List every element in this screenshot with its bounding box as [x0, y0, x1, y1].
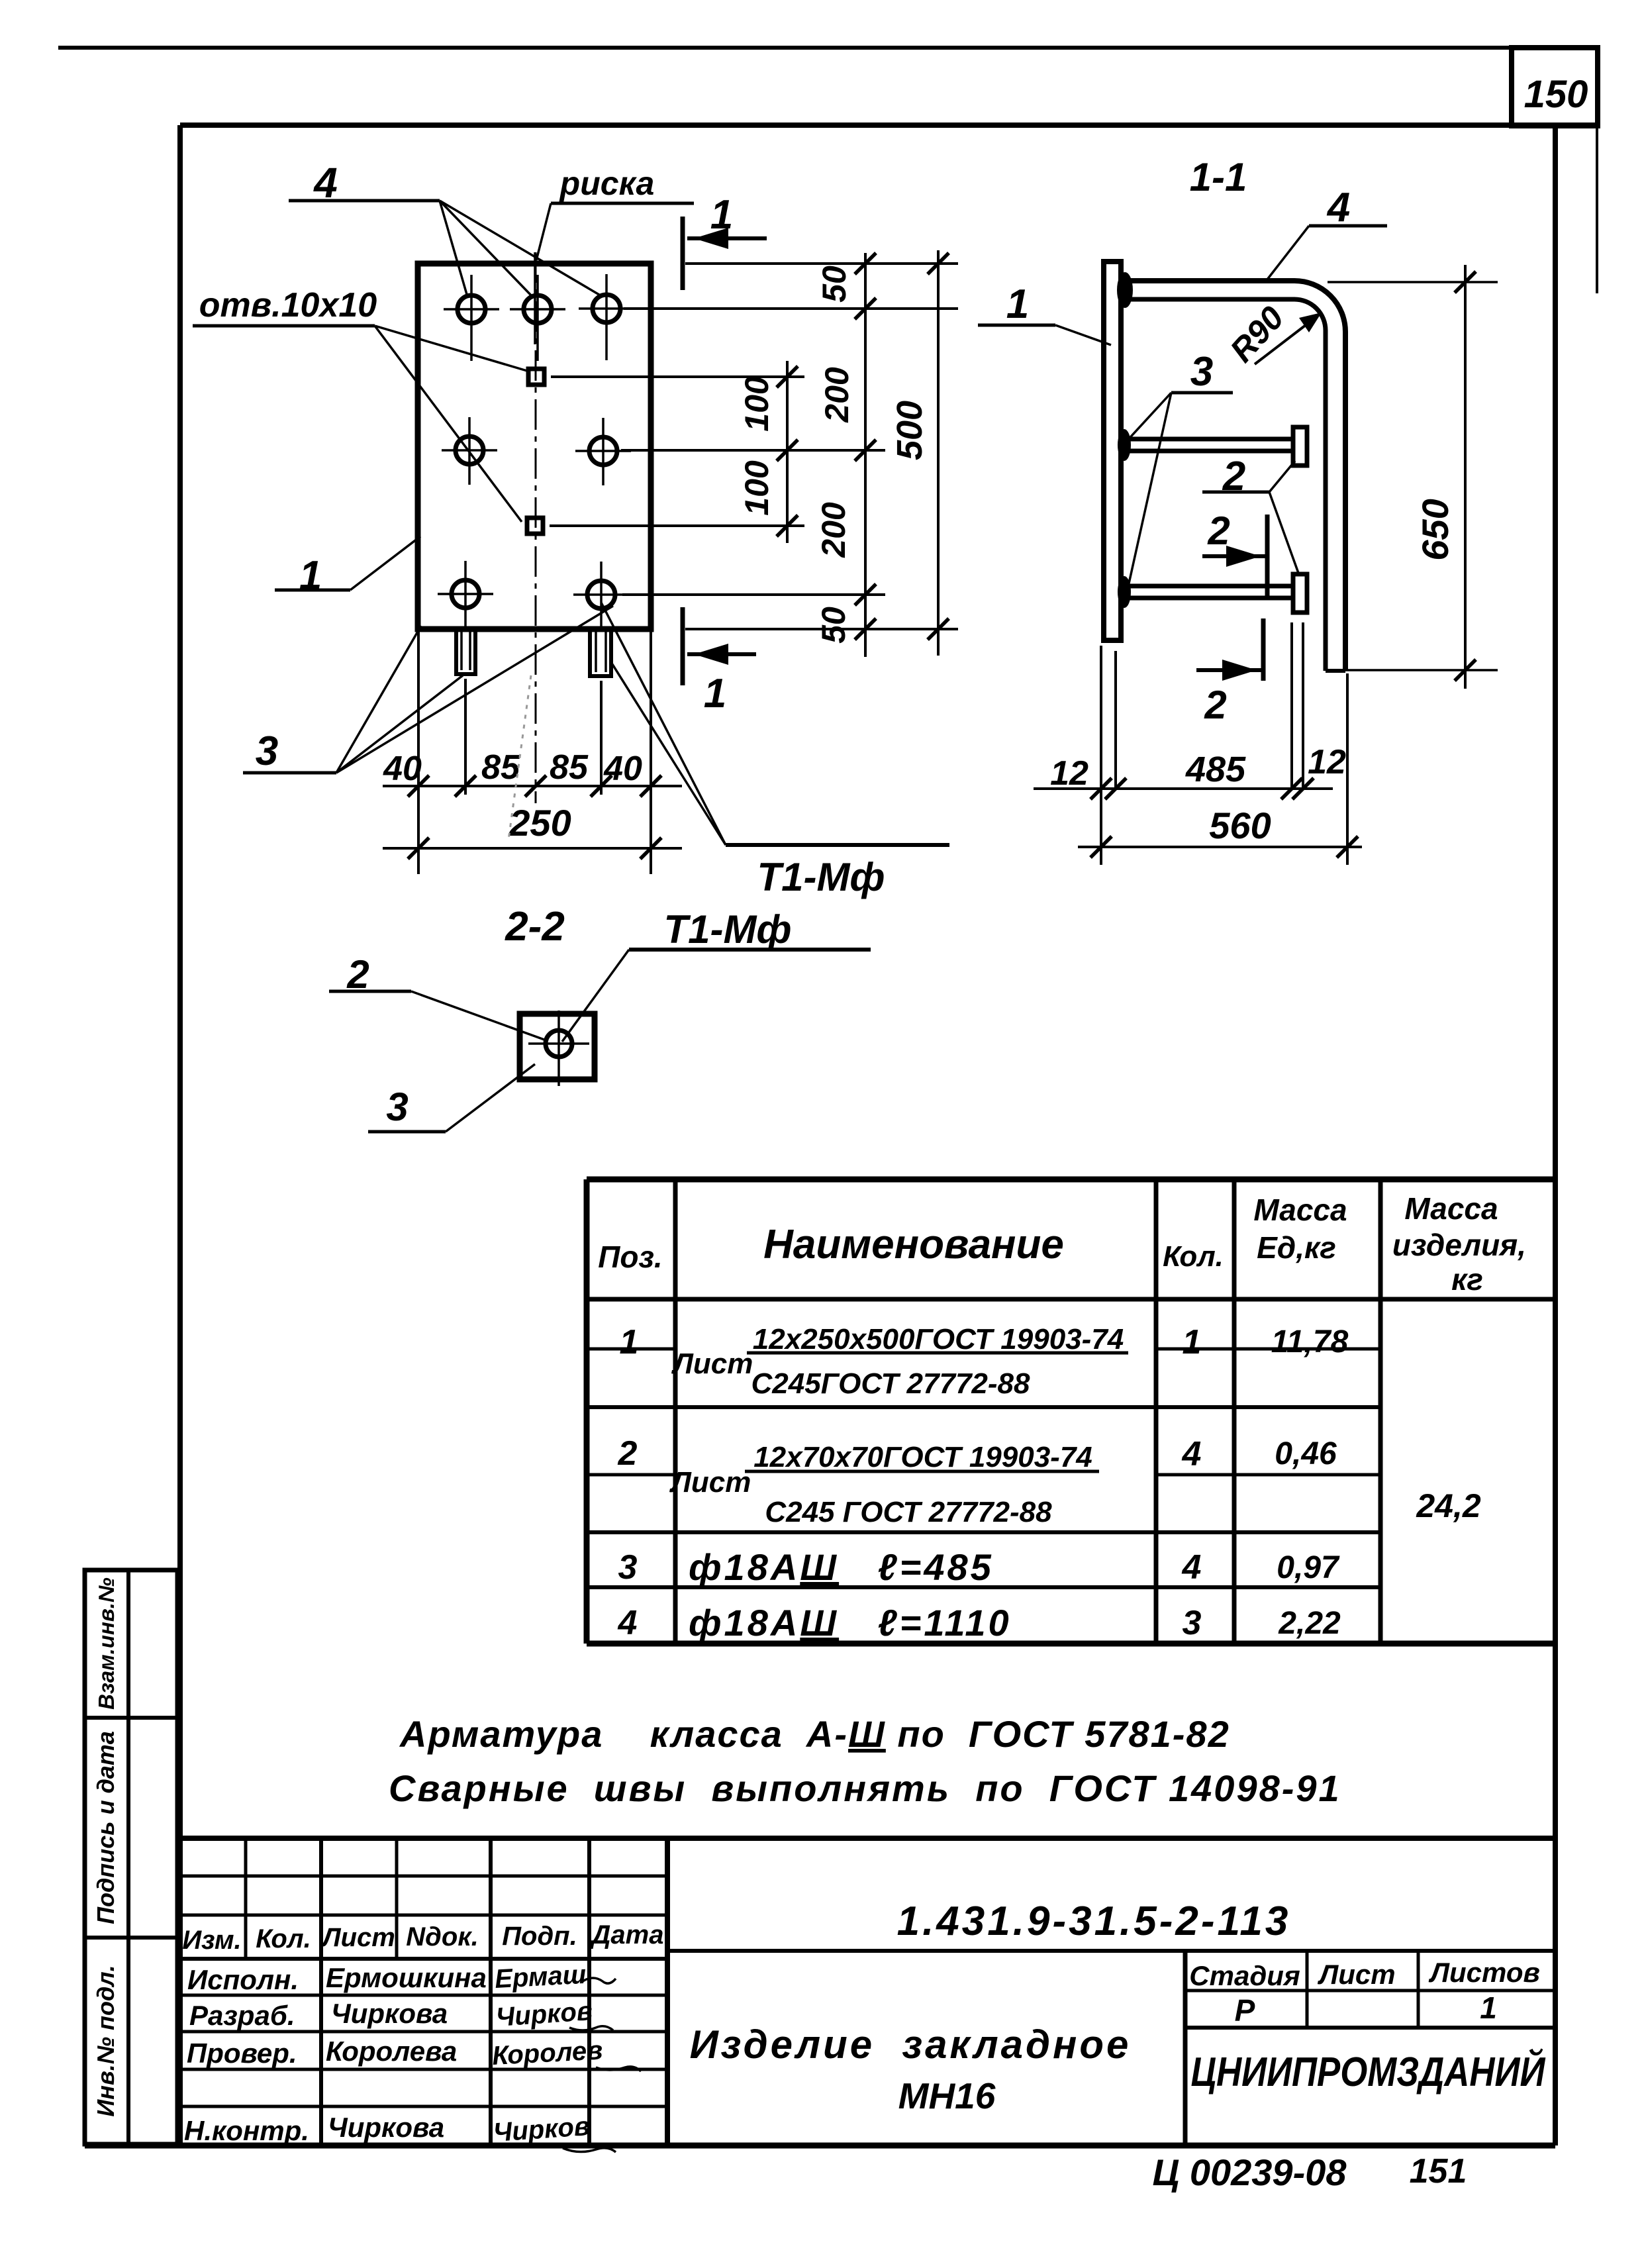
svg-text:Р: Р	[1235, 1993, 1255, 2028]
svg-text:Стадия: Стадия	[1189, 1960, 1300, 1991]
svg-text:Чиркова: Чиркова	[331, 1998, 448, 2029]
svg-text:12: 12	[1050, 754, 1088, 793]
svg-text:40: 40	[383, 750, 422, 788]
svg-text:150: 150	[1524, 73, 1588, 116]
svg-text:риска: риска	[559, 165, 655, 202]
svg-text:24,2: 24,2	[1416, 1487, 1481, 1524]
svg-text:3: 3	[386, 1085, 408, 1129]
svg-text:Лист: Лист	[320, 1923, 395, 1952]
svg-text:250: 250	[508, 802, 571, 844]
svg-text:Ермаш: Ермаш	[494, 1960, 587, 1994]
svg-text:Подпись и дата: Подпись и дата	[92, 1731, 119, 1924]
svg-text:Лист: Лист	[1317, 1959, 1395, 1990]
svg-text:МН16: МН16	[898, 2075, 996, 2116]
svg-text:Лист: Лист	[669, 1466, 751, 1499]
svg-text:485: 485	[1185, 750, 1246, 789]
svg-text:Сварные швы выполнять по Г: Сварные швы выполнять по ГОСТ 14098-91	[389, 1767, 1341, 1809]
svg-text:С245ГОСТ 27772-88: С245ГОСТ 27772-88	[751, 1367, 1031, 1400]
svg-text:4: 4	[1182, 1548, 1202, 1587]
svg-text:Арматура класса А-Ш по ГО: Арматура класса А-Ш по ГОСТ 5781-82	[399, 1713, 1230, 1755]
svg-text:200: 200	[818, 367, 855, 423]
svg-text:Ермошкина: Ермошкина	[326, 1962, 487, 1993]
svg-text:Разраб.: Разраб.	[189, 2000, 295, 2031]
svg-text:1-1: 1-1	[1190, 155, 1247, 199]
svg-text:85: 85	[550, 748, 589, 787]
svg-text:Исполн.: Исполн.	[187, 1964, 299, 1995]
svg-text:изделия,: изделия,	[1392, 1228, 1526, 1262]
svg-text:2-2: 2-2	[505, 904, 565, 950]
svg-text:1: 1	[299, 553, 322, 599]
svg-text:12х250х500ГОСТ 19903-74: 12х250х500ГОСТ 19903-74	[753, 1323, 1124, 1356]
svg-text:2,22: 2,22	[1278, 1606, 1341, 1641]
svg-text:100: 100	[738, 460, 775, 516]
svg-text:Изделие закладное: Изделие закладное	[690, 2022, 1132, 2067]
svg-text:Поз.: Поз.	[598, 1240, 662, 1274]
svg-text:1.431.9-31.5-2-113: 1.431.9-31.5-2-113	[897, 1898, 1291, 1944]
svg-text:Ц 00239-08: Ц 00239-08	[1152, 2151, 1347, 2193]
svg-text:4: 4	[1182, 1435, 1202, 1473]
svg-text:4: 4	[1326, 185, 1350, 230]
svg-text:Дата: Дата	[590, 1920, 664, 1949]
svg-text:Кол.: Кол.	[1163, 1240, 1224, 1273]
svg-text:1: 1	[1480, 1991, 1497, 2025]
svg-text:Масса: Масса	[1404, 1191, 1498, 1226]
svg-text:3: 3	[256, 728, 278, 774]
svg-text:Взам.инв.№: Взам.инв.№	[94, 1577, 119, 1710]
svg-text:Изм.: Изм.	[182, 1926, 241, 1955]
svg-text:4: 4	[618, 1604, 638, 1642]
svg-text:100: 100	[738, 376, 775, 432]
svg-text:3: 3	[618, 1548, 638, 1587]
svg-text:2: 2	[1204, 683, 1226, 727]
svg-text:500: 500	[890, 401, 930, 460]
svg-text:Подп.: Подп.	[502, 1922, 577, 1951]
svg-text:Наименование: Наименование	[763, 1222, 1064, 1267]
svg-text:Лист: Лист	[671, 1348, 753, 1380]
svg-text:1: 1	[1006, 281, 1029, 327]
svg-text:Масса: Масса	[1253, 1193, 1347, 1227]
svg-text:1: 1	[1183, 1323, 1202, 1361]
svg-text:1: 1	[704, 671, 726, 716]
svg-text:12х70х70ГОСТ 19903-74: 12х70х70ГОСТ 19903-74	[753, 1441, 1092, 1473]
svg-text:200: 200	[815, 502, 852, 558]
svg-text:11,78: 11,78	[1271, 1324, 1349, 1359]
svg-text:151: 151	[1410, 2152, 1467, 2191]
svg-text:Чиркова: Чиркова	[328, 2112, 444, 2143]
svg-text:1: 1	[710, 192, 733, 238]
svg-text:50: 50	[815, 607, 852, 644]
svg-text:3: 3	[1183, 1604, 1202, 1642]
svg-text:Кол.: Кол.	[256, 1924, 311, 1953]
svg-text:Листов: Листов	[1428, 1957, 1540, 1988]
svg-text:Н.контр.: Н.контр.	[184, 2115, 309, 2146]
svg-text:С245 ГОСТ 27772-88: С245 ГОСТ 27772-88	[765, 1496, 1052, 1528]
svg-text:12: 12	[1308, 743, 1346, 781]
svg-text:Королева: Королева	[326, 2036, 457, 2067]
svg-text:0,46: 0,46	[1275, 1436, 1337, 1471]
svg-text:0,97: 0,97	[1277, 1550, 1340, 1585]
svg-text:Nдок.: Nдок.	[406, 1922, 478, 1951]
svg-text:Королев: Королев	[491, 2036, 603, 2071]
svg-text:3: 3	[1190, 349, 1213, 395]
svg-text:650: 650	[1414, 499, 1456, 560]
svg-text:Инв.№ подл.: Инв.№ подл.	[92, 1965, 119, 2116]
svg-text:Т1-Мф: Т1-Мф	[757, 855, 885, 899]
svg-text:2: 2	[618, 1434, 638, 1473]
svg-text:Т1-Мф: Т1-Мф	[663, 907, 791, 952]
svg-text:1: 1	[620, 1323, 639, 1361]
svg-text:Ед,кг: Ед,кг	[1257, 1230, 1336, 1265]
svg-text:Провер.: Провер.	[187, 2038, 297, 2069]
svg-text:ф18АШ ℓ=485: ф18АШ ℓ=485	[689, 1546, 994, 1588]
svg-text:кг: кг	[1451, 1262, 1483, 1297]
svg-text:ЦНИИПРОМЗДАНИЙ: ЦНИИПРОМЗДАНИЙ	[1191, 2048, 1546, 2095]
svg-text:40: 40	[603, 750, 642, 788]
svg-text:85: 85	[481, 748, 520, 787]
svg-text:отв.10х10: отв.10х10	[199, 286, 377, 324]
svg-text:ф18АШ ℓ=1110: ф18АШ ℓ=1110	[689, 1602, 1012, 1644]
svg-text:560: 560	[1209, 805, 1271, 846]
svg-text:50: 50	[816, 266, 853, 303]
